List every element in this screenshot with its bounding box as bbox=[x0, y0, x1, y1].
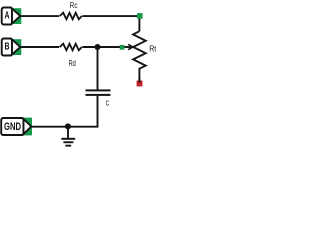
svg-text:Rt: Rt bbox=[149, 44, 156, 54]
svg-text:Rd: Rd bbox=[69, 58, 76, 68]
svg-text:GND: GND bbox=[4, 121, 21, 133]
svg-text:Rc: Rc bbox=[70, 0, 78, 10]
svg-text:A: A bbox=[5, 10, 10, 21]
svg-text:B: B bbox=[5, 41, 10, 52]
svg-text:C: C bbox=[106, 99, 110, 108]
